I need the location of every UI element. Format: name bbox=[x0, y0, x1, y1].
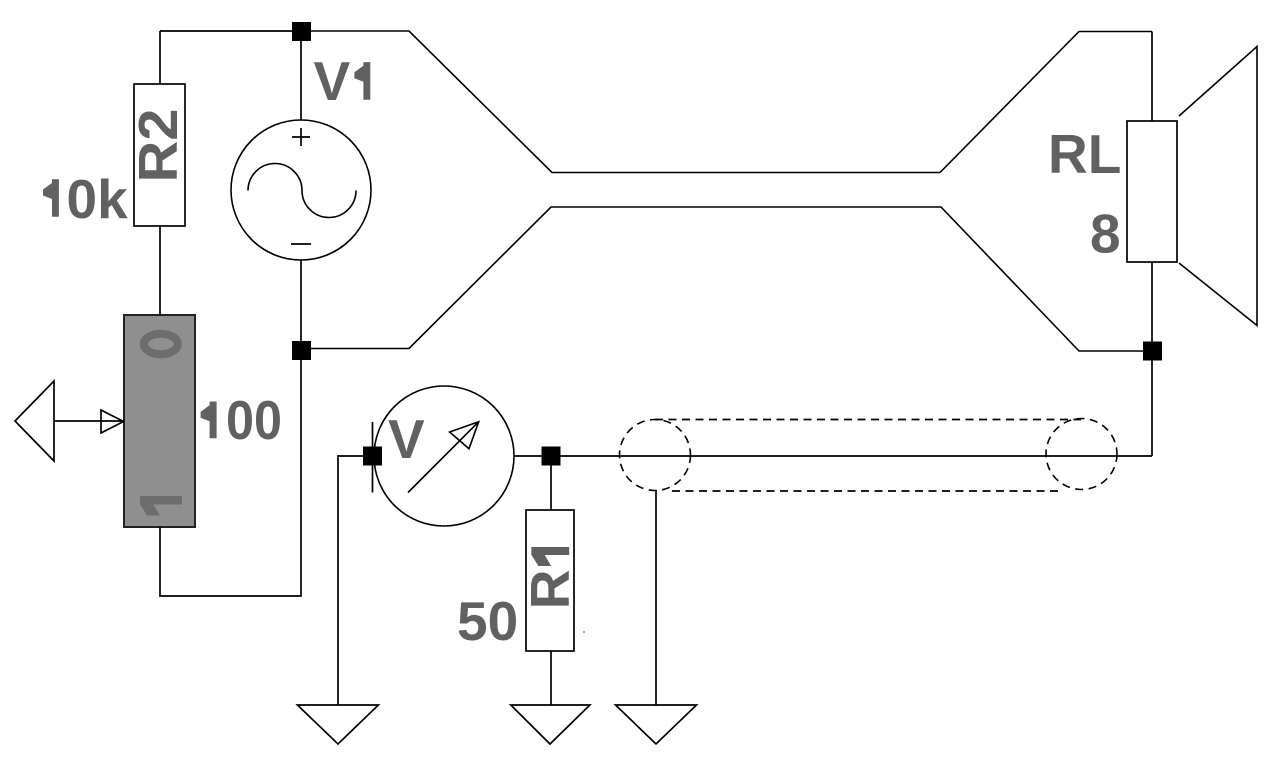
pot pin label 1 (rotated) bbox=[140, 496, 182, 516]
svg-text:0k: 0k bbox=[67, 168, 129, 230]
svg-text:8: 8 bbox=[1090, 203, 1121, 265]
wire RL bottom to node E bbox=[1151, 262, 1153, 342]
resistor RL bbox=[1127, 121, 1177, 262]
V1 sine wave bbox=[248, 164, 356, 218]
wire coax shield to ground bbox=[655, 490, 657, 705]
node C (voltmeter left) bbox=[363, 447, 382, 466]
wire V1 bottom to node B bbox=[300, 260, 302, 341]
resistor R1 bbox=[526, 510, 574, 651]
ground 2 bbox=[511, 705, 590, 744]
wire node E down to coax conductor bbox=[1151, 360, 1153, 456]
svg-text:V: V bbox=[314, 50, 351, 112]
voltmeter needle arrowhead bbox=[450, 422, 479, 449]
node D bbox=[542, 447, 561, 466]
pot value 100 bbox=[201, 402, 217, 439]
wire pot bottom to node B lower rail bbox=[160, 359, 301, 596]
ground 1 bbox=[297, 705, 378, 744]
wire R2 top vertical bbox=[159, 31, 161, 84]
voltmeter left terminal tick bbox=[372, 422, 374, 493]
value 10k bbox=[43, 179, 59, 216]
wire top taper (node A to RL top) bbox=[310, 31, 1152, 173]
wire R2 bottom to potentiometer top bbox=[159, 226, 161, 315]
wire port to wiper bbox=[54, 420, 124, 422]
AC source V1 circle bbox=[231, 120, 371, 260]
svg-text:RL: RL bbox=[1048, 123, 1121, 185]
wire node D to R1 top bbox=[550, 465, 552, 510]
coax left end circle bbox=[620, 420, 691, 491]
pot pin label 0 (rotated) bbox=[144, 334, 178, 355]
wire node A to V1 top bbox=[300, 41, 302, 120]
resistor R2 bbox=[134, 84, 185, 226]
stray dot bbox=[583, 631, 585, 633]
node E (RL bottom) bbox=[1143, 342, 1162, 361]
coax shield bottom dashed line bbox=[672, 490, 1062, 492]
svg-text:50: 50 bbox=[457, 590, 518, 652]
voltmeter needle bbox=[408, 422, 479, 493]
svg-text:V: V bbox=[388, 408, 425, 470]
speaker horn bbox=[1179, 47, 1257, 326]
ground 3 bbox=[616, 705, 697, 744]
svg-text:00: 00 bbox=[226, 389, 282, 451]
V1 minus sign bbox=[291, 243, 311, 245]
wire voltmeter right to node D bbox=[514, 455, 551, 457]
voltmeter V circle bbox=[374, 386, 514, 526]
coax center conductor bbox=[560, 455, 1152, 457]
wire R1 bottom to ground bbox=[550, 651, 552, 705]
wire node C to ground drop bbox=[338, 456, 364, 705]
node A bbox=[292, 22, 311, 41]
input port triangle bbox=[15, 381, 54, 461]
svg-text:R2: R2 bbox=[127, 109, 189, 183]
wire bottom taper (node B to RL bottom node) bbox=[301, 207, 1152, 351]
node B bbox=[292, 341, 311, 360]
coax shield top dashed line bbox=[655, 419, 1081, 421]
potentiometer body 100 bbox=[124, 315, 195, 527]
wire top-left horizontal from R2 top to node A bbox=[160, 30, 301, 32]
wiper arrow bbox=[101, 410, 124, 433]
coax right end circle bbox=[1046, 419, 1117, 490]
wire RL top vertical bbox=[1151, 32, 1153, 122]
V1 plus sign bbox=[292, 128, 310, 146]
svg-text:R: R bbox=[519, 570, 581, 610]
